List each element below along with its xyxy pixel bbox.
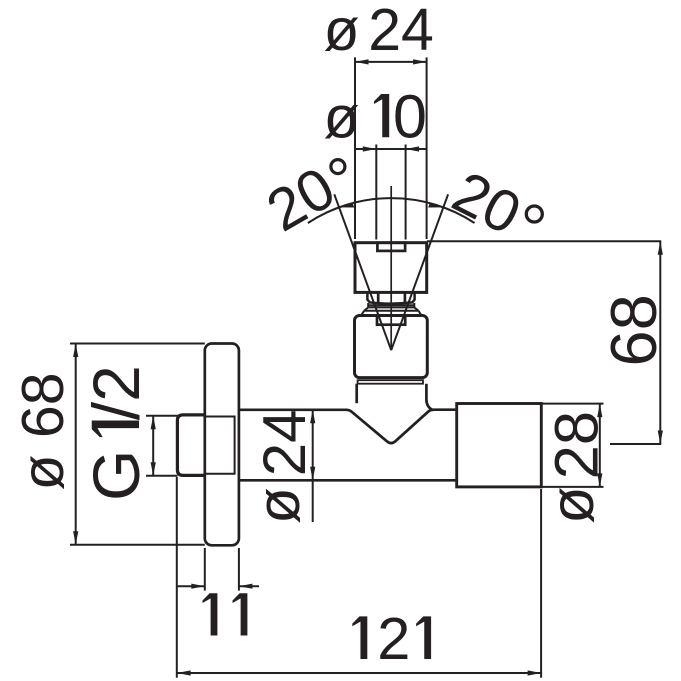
dimension line ø24 top: [355, 61, 427, 63]
svg-text:20: 20: [443, 159, 531, 248]
extension line ø24 left: [354, 57, 356, 239]
flare right: [414, 307, 418, 310]
washer ring bottom: [368, 306, 414, 308]
angle text 20deg left: [256, 154, 346, 244]
extension line G12 top: [146, 415, 178, 417]
dimension text ø68: [10, 372, 76, 490]
dimension text ø28: [538, 486, 607, 524]
extension line ø24 right: [426, 57, 428, 239]
dimension text 121: [352, 605, 431, 672]
extension line ø28 bottom: [542, 486, 604, 488]
dimension text 68 right: [597, 294, 670, 366]
inlet nipple: [177, 415, 205, 476]
svg-text:24: 24: [251, 409, 318, 476]
extension line 121 left: [176, 477, 178, 678]
neck right edge: [426, 384, 456, 410]
extension line ø28 top: [542, 403, 604, 405]
arc arrow right: [428, 203, 443, 208]
extension line 68 bottom: [610, 443, 661, 445]
arrow ø68 top: [73, 344, 78, 358]
dimension line 11 right segment: [239, 585, 259, 587]
arrow 11 left: [191, 584, 205, 589]
svg-text:ø 68: ø 68: [10, 372, 76, 490]
leader line to right 68 dimension: [427, 240, 661, 242]
arrow 121 right: [528, 670, 542, 675]
svg-text:24: 24: [368, 0, 434, 63]
nut facet right: [404, 292, 407, 302]
pipe bottom line: [239, 479, 457, 482]
angle text 20deg right: [443, 159, 531, 248]
base ring side right: [418, 311, 421, 315]
valve cap: [355, 243, 427, 293]
dimension line 121: [177, 672, 541, 674]
gland band: [358, 380, 423, 384]
arrow ø24v bottom: [310, 467, 315, 481]
arrow ø10 right: [406, 146, 420, 151]
dimension text G1/2: [79, 365, 153, 501]
svg-text:ø: ø: [538, 486, 607, 524]
dimension line G1/2: [152, 416, 154, 476]
arrow 121 left: [177, 670, 191, 675]
arrow ø10 left: [363, 146, 377, 151]
arrow ø28 top: [597, 404, 602, 418]
arrow ø24 left: [355, 59, 369, 64]
base ring side left: [362, 311, 365, 315]
neck left edge: [355, 384, 358, 404]
extension line 121 right: [540, 489, 542, 678]
dimension text ø24 vertical: [245, 487, 312, 524]
svg-text:28: 28: [543, 411, 612, 479]
nipple inner lines: [205, 417, 235, 474]
angle line 20deg right: [391, 194, 448, 350]
washer side right: [413, 303, 415, 307]
extension line 11 right: [238, 548, 240, 591]
dimension line ø28: [599, 404, 601, 487]
svg-text:ø: ø: [324, 84, 360, 150]
arrow ø68 bottom: [73, 531, 78, 545]
svg-text:ø: ø: [245, 487, 312, 524]
svg-text:ø: ø: [324, 0, 360, 63]
arrow ø24v top: [310, 410, 315, 424]
degree ring right: [526, 206, 542, 222]
arrow G12 bottom: [151, 462, 156, 476]
bonnet slot: [377, 316, 405, 325]
extension line ø68 top: [70, 343, 205, 345]
dimension line 68 right: [659, 241, 661, 444]
nut facet left: [377, 292, 380, 302]
arrow ø24 right: [413, 59, 427, 64]
centerline valve axis: [390, 186, 392, 350]
svg-text:0: 0: [393, 82, 427, 150]
svg-text:2: 2: [377, 605, 410, 672]
flare left: [364, 307, 368, 310]
dimension line ø10: [355, 148, 427, 150]
wall flange: [205, 344, 239, 546]
dimension line ø24 vertical at pipe: [312, 410, 314, 522]
extension line 11 left: [204, 548, 206, 591]
dimension line 11 left segment: [177, 585, 205, 587]
arc arrow left: [339, 203, 354, 208]
pipe top line with V notch: [239, 410, 434, 443]
arrow ø28 bottom: [597, 473, 602, 487]
dimension line ø68: [75, 344, 77, 545]
extension line ø10 right: [405, 145, 407, 240]
svg-text:/2: /2: [79, 365, 153, 420]
arrow 11 right: [239, 584, 253, 589]
packing nut: [367, 292, 414, 303]
dimension text ø24 top: [324, 0, 434, 63]
angle dimension arc: [308, 198, 475, 223]
arrow 68 bottom: [658, 431, 663, 445]
washer ring top: [368, 304, 414, 306]
arrow G12 top: [151, 416, 156, 430]
cap slot: [377, 243, 405, 251]
svg-text:68: 68: [597, 294, 670, 366]
washer side left: [367, 303, 369, 307]
dimension text ø10: [324, 82, 427, 150]
extension line ø68 bottom: [70, 544, 205, 546]
degree ring left: [331, 160, 345, 174]
outlet body: [457, 404, 542, 487]
angle line 20deg left: [334, 194, 391, 350]
base ring line: [364, 310, 418, 312]
arrow 68 top: [658, 241, 663, 255]
dimension text 11: [203, 593, 248, 635]
bonnet body: [355, 316, 428, 378]
svg-text:G: G: [79, 450, 153, 501]
extension line G12 bottom: [146, 475, 178, 477]
extension line ø10 left: [375, 145, 377, 240]
